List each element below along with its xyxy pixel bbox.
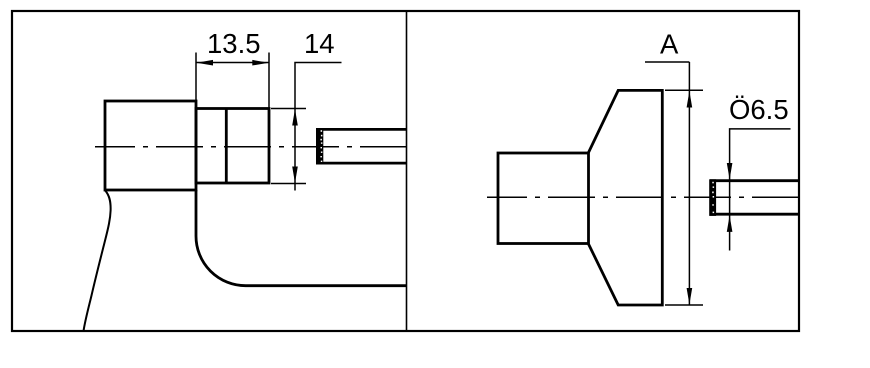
left view: spindle bottom line: [317, 162, 407, 165]
dimension O6.5: lower arrowhead: [727, 215, 733, 232]
dimension 14: bottom extension line: [271, 183, 306, 185]
drawing sheet border: [12, 11, 799, 331]
dimension 13.5: left arrowhead: [197, 60, 214, 66]
dimension 14: leader line: [295, 63, 342, 191]
dimension A: dimension line: [688, 62, 690, 305]
dimension 14: bottom arrowhead: [292, 167, 298, 184]
right view: hub rectangle: [498, 153, 589, 244]
dimension 13.5: right arrowhead: [252, 60, 268, 66]
right view: spindle top line: [710, 179, 799, 182]
view divider line: [406, 11, 408, 331]
dimension 13.5: dimension line: [196, 62, 269, 64]
left view: frame handle left S-curve: [84, 191, 111, 331]
dimension 13.5: extension lines: [195, 53, 197, 102]
dimension O6.5: leader line: [730, 129, 791, 180]
center line (right view): [487, 196, 799, 198]
right view: spindle bottom line: [710, 213, 799, 216]
dimension A: top arrowhead: [687, 91, 693, 108]
left view: micrometer frame boss rectangle: [105, 101, 196, 190]
left view: sleeve step line: [225, 109, 228, 184]
dimension O6.5: lower dimension line: [729, 180, 731, 251]
right view: anvil face hatched block: [709, 179, 716, 216]
dimension A: bottom extension line: [665, 304, 703, 306]
dimension 14: top extension line: [271, 108, 306, 110]
right view: cone/flange outline: [589, 90, 663, 305]
left view: frame handle right edge with fillet and lower arm: [196, 190, 407, 286]
dimension A: leader line: [645, 61, 689, 63]
center line (left view): [95, 146, 407, 148]
dimension A: bottom arrowhead: [687, 288, 693, 305]
svg-text:Ö6.5: Ö6.5: [729, 94, 789, 125]
left view: anvil face hatched block: [316, 128, 323, 165]
svg-text:14: 14: [304, 28, 335, 59]
left view: stepped sleeve rectangle: [196, 109, 269, 184]
left view: spindle top line: [317, 128, 407, 131]
dimension A: top extension line: [665, 89, 703, 91]
dimension O6.5: upper arrowhead: [727, 163, 733, 180]
dimension 14: top arrowhead: [292, 109, 298, 126]
svg-text:A: A: [660, 29, 679, 60]
svg-text:13.5: 13.5: [207, 28, 261, 59]
